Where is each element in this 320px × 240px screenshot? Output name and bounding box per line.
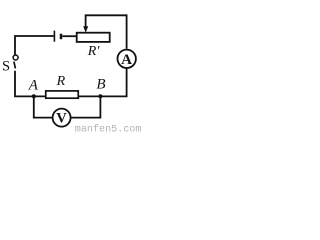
wire bottom-left: switch down and across to resistor <box>15 71 46 97</box>
svg-text:R′: R′ <box>87 44 101 59</box>
node A dot <box>32 94 36 98</box>
wire voltmeter branch right from node B <box>71 96 100 117</box>
wire node B to resistor <box>79 95 101 97</box>
wire ammeter down to node B <box>100 68 126 96</box>
wire voltmeter branch left from node A <box>34 96 53 117</box>
svg-text:R: R <box>56 74 66 89</box>
svg-text:B: B <box>96 77 105 93</box>
wire top-left: from switch up and across to battery <box>15 36 54 55</box>
resistor R body <box>46 91 79 98</box>
slider arrowhead <box>83 26 88 32</box>
voltmeter V <box>53 109 71 127</box>
rheostat R' body <box>77 33 110 42</box>
battery: short thick plate <box>60 34 63 40</box>
svg-text:S: S <box>2 59 10 75</box>
battery: long plate <box>53 31 55 42</box>
node B dot <box>98 94 102 98</box>
svg-text:A: A <box>121 52 132 68</box>
svg-text:manfen5.com: manfen5.com <box>75 123 142 134</box>
switch S terminal circle <box>13 55 18 60</box>
svg-text:V: V <box>56 111 67 127</box>
wire battery to rheostat <box>62 35 76 37</box>
switch S lever <box>14 62 16 69</box>
slider wire: arrow stem, top run, down to ammeter <box>86 15 127 49</box>
ammeter A <box>118 50 136 68</box>
svg-text:A: A <box>28 78 39 94</box>
